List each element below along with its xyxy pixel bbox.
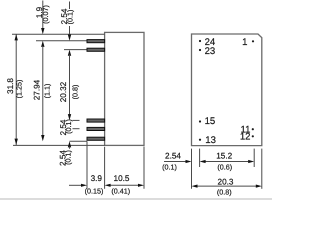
svg-text:15.2: 15.2 bbox=[216, 152, 232, 161]
pin 13 dot bbox=[199, 139, 201, 141]
svg-text:1: 1 bbox=[242, 37, 247, 48]
svg-text:(0.8): (0.8) bbox=[70, 85, 79, 100]
pin row12 (side view) bbox=[87, 137, 105, 140]
svg-text:23: 23 bbox=[205, 46, 216, 57]
pin row10 tick bbox=[73, 119, 80, 121]
svg-text:2.54: 2.54 bbox=[165, 152, 181, 161]
svg-text:(0.15): (0.15) bbox=[85, 187, 104, 196]
bottom extension line body left bbox=[104, 147, 106, 189]
svg-text:(0.6): (0.6) bbox=[217, 163, 232, 172]
pin row1 extension line bbox=[36, 40, 87, 42]
extension line pin column right bbox=[253, 149, 255, 167]
pin row1 (side view) bbox=[87, 40, 105, 43]
dim 31.8 line bbox=[15, 34, 17, 145]
svg-text:(1.1): (1.1) bbox=[43, 84, 52, 99]
pin 11 dot bbox=[252, 128, 254, 130]
svg-text:27.94: 27.94 bbox=[33, 79, 42, 100]
pin 12 dot bbox=[252, 135, 254, 137]
svg-text:3.9: 3.9 bbox=[91, 174, 103, 183]
dim 15.2 line bbox=[205, 161, 248, 163]
pin row11 tick bbox=[73, 128, 80, 130]
svg-text:(0.1): (0.1) bbox=[63, 150, 72, 165]
dim 2.54 leader (bottom view) bbox=[164, 161, 186, 163]
package outline (bottom view) with pin1 chamfer bbox=[192, 34, 262, 146]
svg-text:(0.1): (0.1) bbox=[65, 10, 74, 25]
svg-text:20.32: 20.32 bbox=[59, 81, 68, 102]
bottom extension line body right bbox=[143, 147, 145, 189]
dim 20.3 line bbox=[197, 185, 256, 187]
svg-text:10.5: 10.5 bbox=[114, 174, 130, 183]
pin row11 (side view) bbox=[87, 127, 105, 130]
pin row10 (side view) bbox=[87, 119, 105, 122]
pin 1 dot bbox=[252, 40, 254, 42]
bottom extension line pin tip bbox=[86, 141, 88, 189]
svg-text:(0.1): (0.1) bbox=[64, 119, 73, 134]
dim 1.9 arrow + 27.94 line bbox=[42, 1, 44, 30]
svg-text:(0.07): (0.07) bbox=[41, 5, 50, 24]
footer rule bbox=[0, 198, 272, 200]
svg-text:(0.41): (0.41) bbox=[111, 187, 130, 196]
svg-text:31.8: 31.8 bbox=[6, 78, 15, 94]
top edge extension line bbox=[12, 33, 105, 35]
svg-text:20.3: 20.3 bbox=[218, 177, 234, 186]
svg-text:(0.8): (0.8) bbox=[217, 188, 232, 197]
pin 23 dot bbox=[199, 49, 201, 51]
svg-text:(1.25): (1.25) bbox=[15, 80, 24, 99]
module body (side view) bbox=[105, 32, 144, 145]
extension line pin column left bbox=[199, 149, 201, 167]
svg-text:15: 15 bbox=[205, 116, 216, 127]
pin row2 (side view) bbox=[87, 48, 105, 51]
pin row12 extension line bbox=[70, 140, 88, 142]
svg-text:(0.1): (0.1) bbox=[162, 163, 177, 172]
dim 10.5 line bbox=[110, 184, 139, 186]
svg-text:12: 12 bbox=[240, 131, 251, 142]
extension line package left bbox=[191, 149, 193, 189]
bottom edge extension line bbox=[13, 144, 105, 146]
pin 15 dot bbox=[199, 120, 201, 122]
pin row2 extension line bbox=[64, 49, 87, 51]
extension line package right bbox=[261, 149, 263, 189]
dim 3.9 leader bbox=[69, 184, 82, 186]
svg-text:13: 13 bbox=[205, 135, 216, 146]
dim 2.54 top arrow + 20.32 line + 2.54 bottom arrows bbox=[69, 2, 71, 10]
pin 24 dot bbox=[199, 40, 201, 42]
